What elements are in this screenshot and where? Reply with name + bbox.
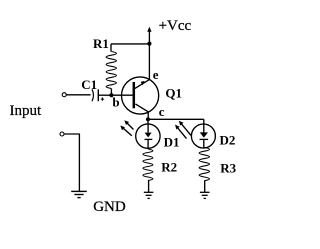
svg-text:R1: R1 <box>93 36 109 51</box>
LED D2 <box>191 124 215 148</box>
svg-text:Q1: Q1 <box>165 85 182 100</box>
svg-text:Input: Input <box>10 103 42 119</box>
node top junction <box>147 42 151 46</box>
svg-text:C1: C1 <box>81 77 97 92</box>
wire terminal to ground <box>64 134 79 191</box>
svg-text:c: c <box>159 104 165 119</box>
capacitor C1 <box>92 89 104 101</box>
svg-text:GND: GND <box>93 199 126 215</box>
wire top horizontal R1 to Vcc line <box>111 43 149 45</box>
resistor R2 <box>143 149 153 192</box>
svg-text:+Vcc: +Vcc <box>159 18 192 34</box>
svg-text:D1: D1 <box>164 135 180 150</box>
ground terminal (left) <box>60 132 64 136</box>
svg-text:R3: R3 <box>220 160 236 175</box>
input terminal <box>62 93 66 97</box>
node collector junction <box>146 117 150 121</box>
ground (left) <box>71 191 87 197</box>
D2 light arrows <box>175 121 191 139</box>
Vcc arrow <box>147 27 151 44</box>
resistor R1 <box>106 44 116 95</box>
svg-text:b: b <box>112 94 119 109</box>
svg-text:e: e <box>153 67 159 82</box>
ground R2 <box>144 192 154 198</box>
resistor R3 <box>199 148 209 193</box>
D1 light arrows <box>120 120 133 136</box>
svg-text:R2: R2 <box>161 160 177 175</box>
svg-text:D2: D2 <box>220 132 236 147</box>
node base junction b <box>109 93 113 97</box>
transistor Q1 <box>111 77 158 119</box>
wire down to D2 <box>203 119 205 124</box>
wire capacitor to base <box>99 94 112 96</box>
wire collector to D2 branch <box>148 118 204 120</box>
LED D1 <box>136 124 160 149</box>
ground R3 <box>200 192 210 198</box>
wire input to capacitor <box>66 94 90 96</box>
wire down to D1 <box>147 119 149 124</box>
wire main vertical Vcc to emitter <box>148 44 150 80</box>
